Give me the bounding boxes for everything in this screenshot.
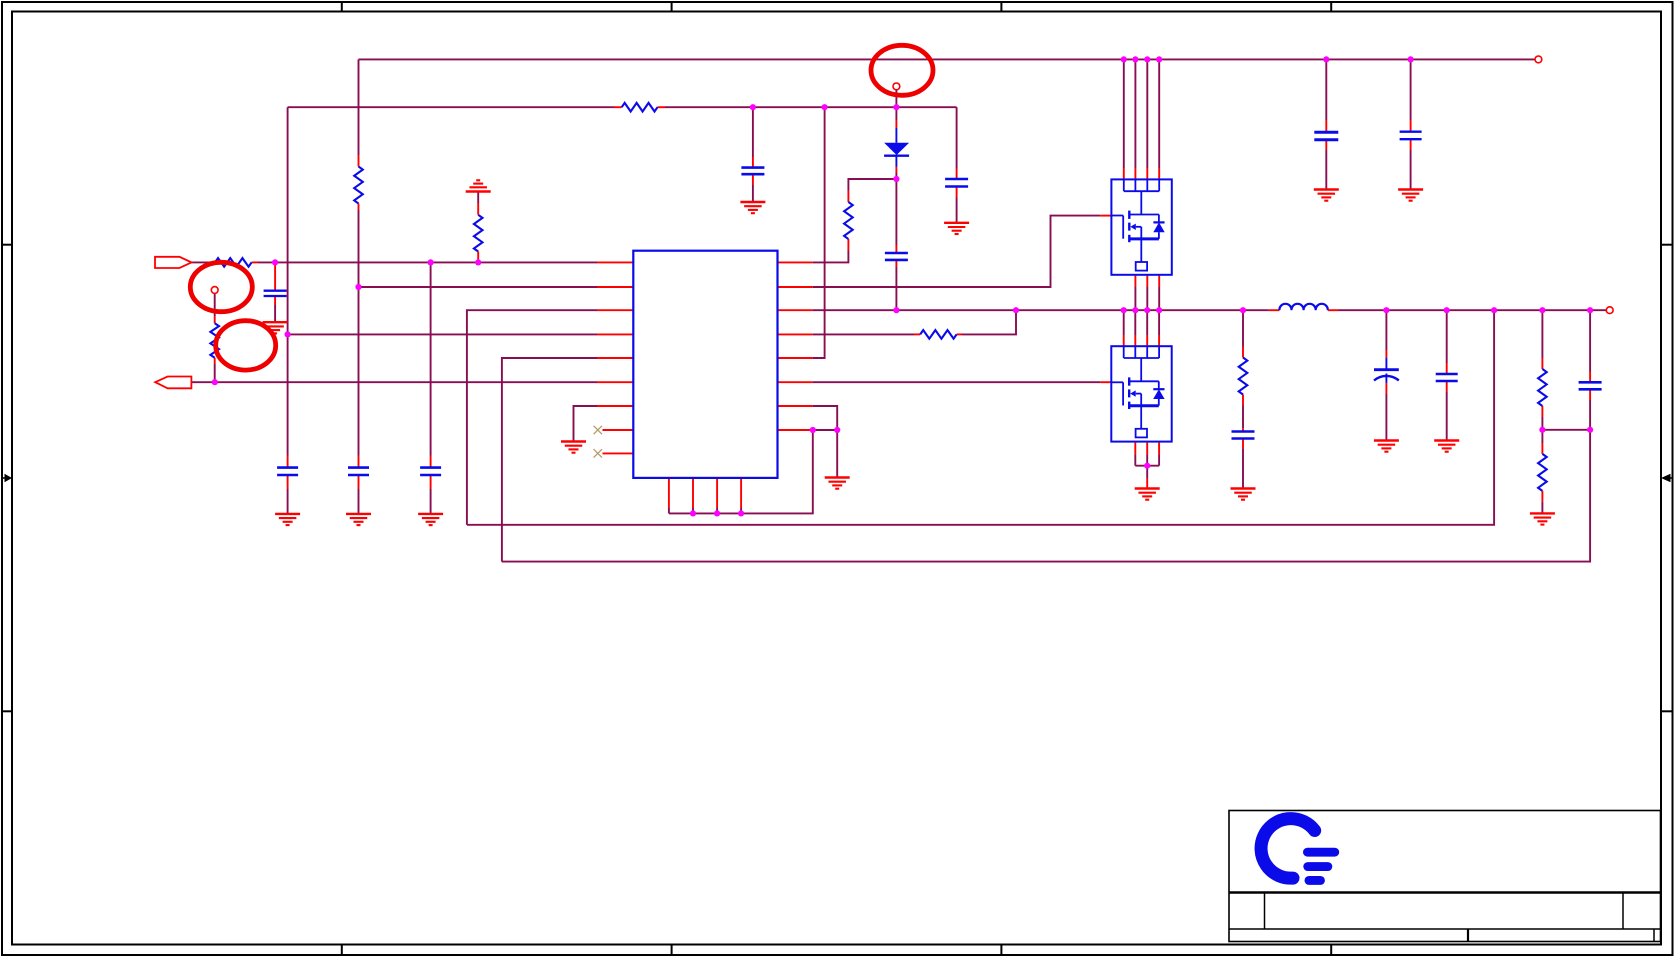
capacitor C3: [420, 468, 441, 475]
wire C9 branch: [1325, 59, 1327, 189]
wire vertical to C3: [430, 262, 432, 514]
resistor R7: [1239, 358, 1248, 395]
resistor R8: [1538, 369, 1547, 406]
wire U1 pin8 right: [778, 430, 838, 478]
wire SW node rail: [778, 309, 1269, 311]
wire Q1 source leads: [1135, 275, 1159, 310]
wire U1 pin4 right to R6: [778, 310, 1017, 334]
ground at C1: [275, 514, 300, 525]
transistor Q2 low-side MOSFET: [1111, 346, 1171, 441]
no-connect X pin8: [594, 426, 602, 434]
ground at C13: [1434, 441, 1459, 452]
wire VCC rail: [288, 106, 957, 108]
resistor R6: [920, 330, 956, 339]
wire VIN top rail: [359, 58, 1536, 60]
ground at R9: [1530, 513, 1555, 524]
ground at Q2 source: [1135, 489, 1160, 500]
ground at C9: [1314, 190, 1339, 201]
transistor Q1 high-side MOSFET: [1111, 179, 1171, 274]
wire U1 pin4 left: [288, 333, 634, 335]
capacitor C7 bootstrap: [885, 253, 908, 260]
border arrow left: [2, 474, 12, 482]
terminal circle TP1: [211, 287, 218, 294]
ground at C2: [346, 514, 371, 525]
capacitor C6: [945, 179, 968, 187]
wire U1 pin5 left: [502, 358, 633, 562]
ground at C6: [944, 223, 969, 234]
wire Q1 drain leads: [1124, 59, 1159, 179]
markup ellipse 1: [190, 262, 252, 311]
wire C4 branch: [274, 262, 276, 322]
resistor R4: [622, 103, 658, 112]
wire VOUT rail: [1339, 309, 1607, 311]
wire C13 branch: [1446, 310, 1448, 440]
resistor R3: [210, 323, 219, 357]
wire U1 pin5 right to VCC: [778, 107, 825, 358]
capacitor C10: [1400, 132, 1422, 140]
no-connect X pin9: [594, 449, 602, 457]
capacitor C4: [264, 291, 287, 296]
wire C12 branch: [1385, 310, 1387, 440]
ground at U1 pin7 left: [561, 442, 586, 453]
company logo: [1261, 819, 1339, 885]
wire vertical R2 branch: [358, 59, 360, 514]
wire U1 pin2 right to Q1 gate: [778, 216, 1112, 287]
wire R7 C11 branch: [1242, 310, 1244, 488]
diode D1: [884, 128, 909, 167]
wire U1 pin1 right to R5: [778, 179, 897, 262]
inductor L1: [1269, 304, 1339, 310]
resistor R5: [844, 202, 853, 239]
capacitor C12 polarized: [1374, 358, 1399, 383]
ground at U1 pin8: [825, 478, 850, 489]
wire U1 pin2 left: [359, 286, 634, 288]
port P1 input: [155, 257, 192, 268]
resistor R9: [1538, 454, 1547, 491]
wire R8 divider top: [1541, 310, 1543, 430]
resistor R2: [354, 167, 363, 204]
wire U1 pin6 right to Q2 gate: [778, 381, 1112, 383]
title block: [1229, 811, 1661, 942]
wire U1 pin7 left to ground: [574, 406, 634, 442]
markup ellipse 2: [216, 321, 276, 370]
resistor R1: [215, 258, 252, 267]
capacitor C5: [741, 168, 764, 175]
wire vertical to C1: [287, 107, 289, 514]
wire C10 branch: [1410, 59, 1412, 189]
ground above R10 inverted: [466, 180, 491, 191]
port P2 output: [155, 377, 191, 389]
capacitor C13: [1436, 374, 1458, 381]
wire port2 to U1 pin6: [191, 381, 633, 383]
IC U1 controller: [633, 251, 777, 478]
wire Q2 source to ground: [1135, 443, 1159, 489]
capacitor C9: [1314, 132, 1338, 140]
ground at C11: [1231, 489, 1256, 500]
capacitor C2: [348, 468, 369, 475]
terminal circle VOUT end: [1606, 307, 1613, 314]
wire feedback sense: [467, 310, 1494, 525]
ground at C5: [740, 202, 765, 213]
wire U1 pad to pin8 node: [669, 430, 813, 513]
terminal circle TP2: [893, 83, 900, 107]
wire U1 bottom pads: [669, 478, 741, 514]
capacitor C1: [277, 468, 298, 475]
wire feedback lower: [502, 430, 1590, 562]
ground at C12: [1374, 441, 1399, 452]
capacitor C11: [1232, 432, 1255, 439]
wire divider mid node: [1542, 429, 1590, 431]
wire port1 to U1 pin1: [192, 261, 634, 263]
ground at C3: [418, 514, 443, 525]
ground at C4: [263, 322, 288, 333]
capacitor C14: [1579, 382, 1602, 389]
wire U1 pin8 stub: [603, 429, 634, 431]
border arrow right: [1661, 474, 1673, 482]
wire U1 pin9 stub: [603, 452, 634, 454]
wire C14 branch: [1589, 310, 1591, 430]
terminal circle VIN end: [1535, 56, 1542, 63]
wire Q2 drain leads: [1124, 310, 1159, 346]
wire C6 branch: [956, 107, 958, 223]
resistor R10 gnd pullup: [474, 192, 483, 263]
markup ellipse 3: [871, 45, 933, 95]
wire C5 branch: [752, 107, 754, 202]
wire diode branch: [895, 107, 897, 310]
ground at C10: [1398, 190, 1423, 201]
wire U1 pin3 left: [467, 310, 633, 525]
wire R9 divider bottom: [1541, 430, 1543, 514]
wire test point branch: [214, 294, 216, 383]
wire U1 pin7 right to ground: [778, 406, 838, 430]
